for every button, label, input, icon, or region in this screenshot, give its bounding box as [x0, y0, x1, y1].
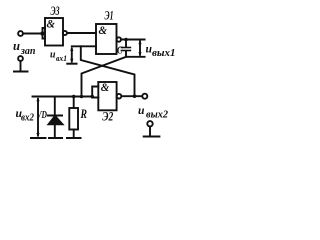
svg-text:вых1: вых1	[152, 48, 176, 59]
NAND gate E2 box	[98, 82, 116, 110]
svg-text:Э2: Э2	[102, 110, 113, 124]
wire diode to ground	[54, 124, 56, 137]
wire node to resistor R	[73, 97, 75, 109]
annotation arrow u_vyh1	[139, 42, 141, 55]
wire E3 output to E1 input 1	[67, 32, 96, 34]
node feedback junction on E2 output	[133, 94, 137, 98]
terminal U_vyh2	[142, 94, 147, 99]
annotation arrow u_vh1	[71, 49, 73, 62]
wire C bottom to reference bar	[126, 51, 145, 57]
svg-text:C: C	[117, 46, 123, 57]
svg-text:u: u	[13, 38, 20, 53]
E3 output inversion bubble	[63, 31, 67, 35]
wire terminal stem	[20, 61, 22, 71]
svg-text:&: &	[47, 19, 56, 31]
wire U_zap to E3 inputs	[23, 33, 42, 35]
NAND gate E3 box	[45, 18, 63, 46]
svg-text:зап: зап	[20, 46, 36, 57]
wire resistor to ground	[73, 130, 75, 138]
svg-text:VD: VD	[37, 109, 48, 121]
wire E2 tied-input bracket	[92, 87, 98, 98]
node R junction	[72, 95, 76, 99]
ground bar under VD	[49, 137, 62, 139]
annotation arrow u_vh2	[37, 99, 39, 136]
node D2 junction	[80, 95, 84, 99]
E2 output inversion bubble	[117, 94, 122, 99]
diode VD triangle	[49, 116, 63, 124]
svg-text:u: u	[138, 103, 145, 117]
capacitor C plates	[121, 47, 130, 49]
wire E1 input 2	[72, 45, 96, 47]
wire terminal stem	[149, 127, 151, 136]
svg-text:&: &	[99, 25, 108, 37]
wire tap down to C	[125, 40, 127, 48]
reference bar under u_vh1	[67, 63, 76, 65]
ground bar under R	[67, 137, 81, 139]
terminal U_zap input	[18, 31, 23, 36]
svg-text:вх2: вх2	[21, 113, 34, 124]
svg-text:&: &	[101, 82, 110, 94]
wire E2 output	[122, 95, 143, 97]
wire feedback E2 out to E1 in2 (diagonal D1)	[81, 46, 135, 96]
diode VD cathode bar	[48, 115, 62, 117]
wire E1 output	[121, 39, 144, 41]
wire E2 input node	[33, 96, 93, 98]
svg-text:Э1: Э1	[105, 9, 114, 23]
terminal U_vyh2 ground	[147, 121, 152, 126]
ground bar under U_zap	[14, 71, 28, 73]
ground bar under U_vyh2	[144, 136, 160, 138]
node junction at E3 input bracket	[41, 32, 45, 36]
wire C bottom to E2 input node (diagonal D2)	[82, 57, 127, 97]
node E2 bracket junction	[90, 95, 94, 99]
svg-text:R: R	[80, 106, 87, 121]
svg-text:u: u	[50, 49, 56, 61]
E1 output inversion bubble	[117, 37, 121, 41]
svg-text:вых2: вых2	[146, 110, 168, 121]
resistor R box	[69, 108, 78, 130]
terminal U_zap ground	[18, 56, 23, 61]
node capacitor tap on E1 output	[124, 38, 128, 42]
wire node to diode VD	[54, 97, 56, 116]
reference bar under u_vh2 arrow	[31, 137, 46, 139]
svg-text:вх1: вх1	[56, 53, 67, 63]
wire E3 tied-input bracket	[43, 28, 46, 39]
svg-text:Э3: Э3	[51, 4, 60, 18]
NAND gate E1 box	[96, 24, 117, 54]
